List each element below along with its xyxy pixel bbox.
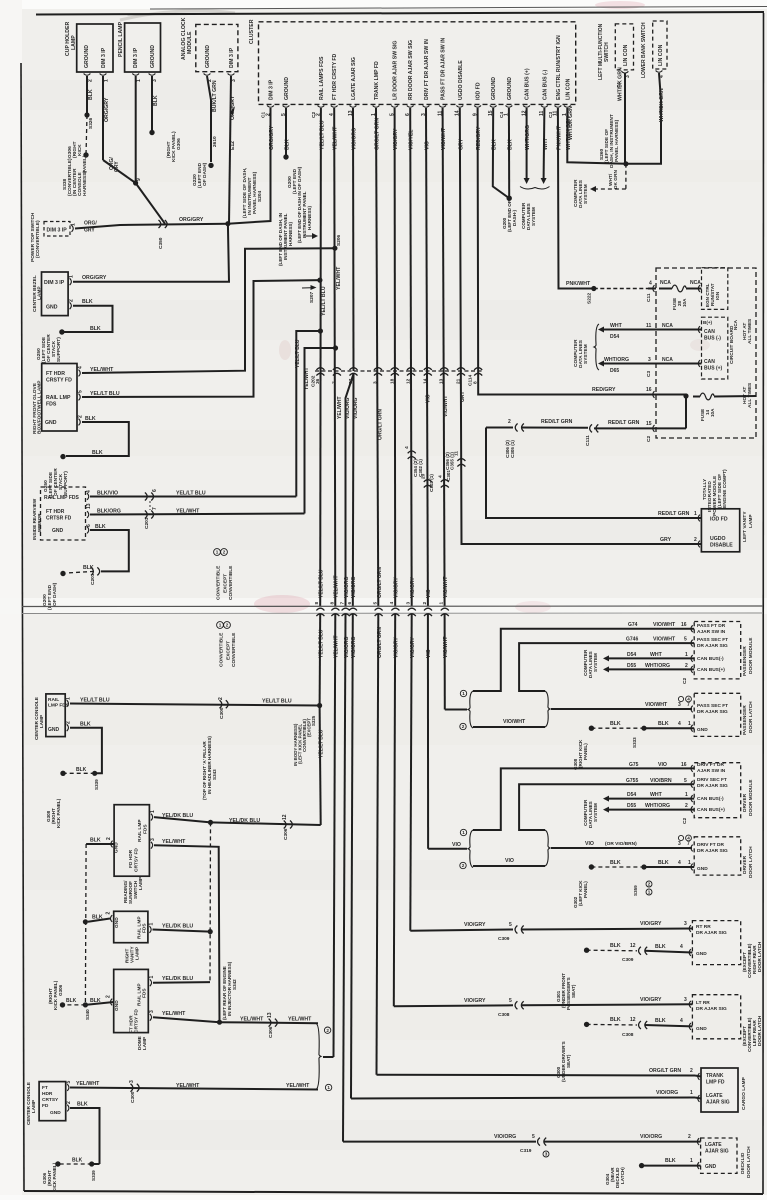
wire BLK/VIO - YEL/LT BLU mirror row, connector C201 pin 6 [90,496,296,498]
svg-text:14: 14 [422,378,428,384]
svg-text:1: 1 [216,550,219,555]
svg-text:RT RR: RT RR [696,924,711,930]
ground G306 (right kick panel) [86,115,87,155]
wire WHT/DK GRN from cluster LIN CON pin [567,108,626,164]
svg-text:MODULE: MODULE [187,31,193,54]
svg-text:3: 3 [406,602,412,605]
svg-text:ORG/LT GRN: ORG/LT GRN [377,567,383,598]
svg-text:13: 13 [86,503,92,509]
svg-text:BLK: BLK [655,1018,666,1024]
svg-text:ENGINE COMPT): ENGINE COMPT) [722,469,728,508]
svg-text:CRTSY FD: CRTSY FD [134,848,140,872]
wire BLK dome GND [85,1002,113,1005]
wire RED/GRY from cluster pin 9 to TIPM pin 16 [478,108,656,395]
splice S338 (in center console harness) [133,180,138,185]
svg-text:DIM 3 IP: DIM 3 IP [269,79,275,100]
svg-text:C3: C3 [548,112,554,118]
svg-text:S333: S333 [632,737,637,748]
wire BLK from pencil lamp pin 3 [151,76,153,130]
module: left rear door latch [692,995,740,1039]
svg-text:GROUND: GROUND [507,77,513,100]
svg-text:RR DOOR AJAR SW SIG: RR DOOR AJAR SW SIG [408,40,414,100]
svg-text:YEL/LT BLU: YEL/LT BLU [176,490,206,496]
svg-text:LAMP: LAMP [142,1037,147,1050]
svg-text:BLK: BLK [610,1017,621,1023]
svg-text:WHT/ORG: WHT/ORG [604,357,629,363]
svg-text:NCA: NCA [690,280,701,286]
svg-text:1: 1 [694,511,697,517]
svg-text:CAN BUS (-): CAN BUS (-) [542,69,548,100]
svg-text:5: 5 [532,1134,535,1140]
svg-text:PASS FT DR: PASS FT DR [697,623,726,629]
svg-text:2: 2 [88,79,94,82]
svg-text:VIO/WHT: VIO/WHT [653,637,676,643]
svg-text:BLK: BLK [658,860,669,866]
svg-text:DOOR LATCH: DOOR LATCH [757,1015,762,1046]
svg-text:D65: D65 [610,368,619,374]
svg-text:4: 4 [438,475,444,478]
wire YEL/WHT sunroof to S342 [154,845,220,1022]
junction YEL/WHT to mirror [333,345,338,350]
connector C202 (instrument panel) [315,370,483,372]
svg-text:YEL/WHT: YEL/WHT [162,1011,186,1017]
svg-text:AJAR SIG: AJAR SIG [705,1149,729,1155]
wire YEL/WHT row, connector C306 pin 13 [220,1022,319,1023]
wire YEL/WHT into brace [323,1056,334,1058]
svg-text:WHT/DK GRN: WHT/DK GRN [618,67,624,101]
lamp: center bezel lamp [42,272,69,316]
svg-text:C2: C2 [682,818,688,824]
svg-text:PANEL HARNESS): PANEL HARNESS) [614,119,620,162]
svg-text:PANEL): PANEL) [583,881,588,898]
svg-text:D54: D54 [627,652,636,658]
svg-text:1: 1 [690,1090,693,1096]
svg-text:YEL/WHT: YEL/WHT [176,508,200,514]
svg-text:2: 2 [66,1101,72,1104]
svg-text:VIO/ORG: VIO/ORG [353,397,359,419]
svg-text:G306: G306 [176,138,182,150]
svg-text:C306: C306 [283,828,289,840]
lamp: center console lamp (rail lamp feed) [46,694,65,737]
svg-text:3: 3 [373,381,379,384]
wire ORG/LT GRN to cargo lamp trunk lamp feed [377,614,379,1075]
splice S340 [83,1002,88,1007]
svg-text:6: 6 [347,602,353,605]
svg-text:YEL/WHT: YEL/WHT [304,368,310,391]
svg-text:OF DASH): OF DASH) [52,582,58,606]
svg-text:GND: GND [696,1026,707,1032]
svg-text:DR AJAR SIG: DR AJAR SIG [697,643,728,649]
svg-text:BLK: BLK [66,998,77,1004]
svg-text:FD HDR: FD HDR [128,849,134,868]
svg-text:RED/LT GRN: RED/LT GRN [541,419,573,425]
svg-text:C2: C2 [311,112,317,118]
svg-text:1: 1 [69,275,75,278]
svg-text:VIO/ORG: VIO/ORG [351,576,357,598]
svg-text:16: 16 [681,622,687,628]
ground G306 (right kick panel) lower [55,1161,60,1166]
svg-text:16: 16 [681,762,687,768]
ground G200 (left end of dash) for mirror [60,571,65,576]
wire VIO/WHT to passenger door [444,614,446,710]
svg-text:RAIL: RAIL [48,697,59,703]
svg-text:BLK: BLK [90,998,101,1004]
svg-text:BLK: BLK [80,722,91,728]
svg-text:LGATE: LGATE [706,1093,723,1099]
svg-text:LGATE AJAR SIG: LGATE AJAR SIG [351,57,357,100]
svg-text:FDS: FDS [143,824,149,834]
svg-text:4: 4 [687,697,690,702]
svg-text:BUS (-): BUS (-) [704,336,721,342]
svg-text:11: 11 [646,323,652,329]
svg-text:GROUND: GROUND [491,77,497,100]
svg-text:LIN CON: LIN CON [623,44,629,66]
svg-text:WHT: WHT [610,323,623,329]
svg-text:LGATE: LGATE [705,1142,722,1148]
svg-text:DECKLID: DECKLID [740,1152,746,1174]
svg-text:YEL/DK BLU: YEL/DK BLU [162,923,193,929]
svg-text:YEL/DK BLU: YEL/DK BLU [162,976,193,982]
svg-text:12: 12 [630,1017,636,1023]
fuse 14 10A [700,393,714,400]
svg-text:SYSTEM: SYSTEM [583,344,589,364]
svg-text:4: 4 [678,860,681,866]
svg-text:LAMP: LAMP [748,514,754,528]
brace: driver latch merge [545,830,550,866]
svg-text:2: 2 [106,837,112,840]
svg-text:CLUSTER: CLUSTER [249,19,255,44]
dashed wire to computer data lines system [625,164,627,189]
svg-text:C355 (1): C355 (1) [450,452,455,470]
svg-text:2: 2 [226,623,229,628]
svg-text:15: 15 [646,421,652,427]
splice S325 (left kick panel) [317,703,322,708]
svg-text:BLK: BLK [153,95,159,106]
svg-text:8: 8 [314,602,320,605]
svg-text:YEL/LT BLU: YEL/LT BLU [90,391,120,397]
svg-text:BUS (+): BUS (+) [704,366,723,372]
svg-text:6: 6 [86,524,92,527]
module: analog clock module [196,24,238,71]
svg-text:LT RR: LT RR [696,1000,710,1006]
wire VIO/ORG split left [346,374,354,607]
svg-text:(OR VIO/BRN): (OR VIO/BRN) [605,841,637,847]
svg-text:1: 1 [149,923,155,926]
svg-text:BLK: BLK [82,299,93,305]
svg-text:C308: C308 [622,1032,634,1038]
svg-text:10A: 10A [710,408,715,417]
svg-text:3: 3 [684,921,687,927]
svg-text:CAN BUS(+): CAN BUS(+) [697,667,725,673]
wire VIO/GRY to left rear door latch [394,614,395,1007]
svg-text:BLK: BLK [655,944,666,950]
svg-text:S325: S325 [311,715,316,726]
svg-text:KICK PANEL): KICK PANEL) [56,798,61,828]
svg-text:LATCH): LATCH) [620,1167,625,1184]
wire VIO/YEL - VIO/GRY from cluster pin 6 [410,108,412,607]
svg-text:LAMP: LAMP [37,286,43,300]
svg-text:IGN: IGN [715,291,720,300]
svg-text:RAIL LMP: RAIL LMP [46,395,71,401]
svg-text:WHT/DK GRN: WHT/DK GRN [568,106,574,140]
svg-text:3: 3 [129,1080,135,1083]
svg-text:BLK: BLK [92,914,103,920]
svg-text:RAIL LMP: RAIL LMP [137,819,143,842]
svg-text:VIO/GRY: VIO/GRY [640,921,662,927]
wire BLK/ORG - YEL/WHT mirror row, connector C201 pin 7 [90,514,305,515]
wire ORG/GRY to center bezel lamp [73,224,229,282]
svg-text:ORG/LT GRN: ORG/LT GRN [378,409,384,440]
svg-text:PNK/WHT: PNK/WHT [566,281,591,287]
svg-text:TRANK: TRANK [706,1073,724,1079]
svg-text:LAMP: LAMP [138,877,143,890]
svg-text:VIO/ORG: VIO/ORG [656,1090,678,1096]
svg-text:PANEL): PANEL) [583,743,588,760]
svg-text:1: 1 [688,721,691,727]
wire YEL/DK BLU row, connector C306 pin 12 [211,822,321,825]
svg-text:WHT/ORG: WHT/ORG [645,803,670,809]
wire ORG/GRY merge from cup holder [103,160,136,183]
wire ORG/GRY row with connector C350 [75,224,228,229]
svg-text:DOOR MODULE: DOOR MODULE [748,779,754,816]
svg-text:2610: 2610 [212,136,218,147]
svg-text:VIO/WHT: VIO/WHT [443,396,449,417]
svg-text:BLK: BLK [83,565,94,571]
brace: passenger latch merge [545,691,550,727]
wire BLK cluster pin 15 [493,108,509,198]
svg-text:3: 3 [678,841,681,847]
svg-text:VIO/ORG: VIO/ORG [494,1134,516,1140]
svg-text:CONVERTIBLE: CONVERTIBLE [228,565,234,600]
svg-text:BLK: BLK [610,943,621,949]
TIPM: EGN CTRL RUN/START IGN block [702,268,728,310]
svg-text:12: 12 [406,378,412,384]
splice S206 [332,246,337,251]
svg-text:VIO/GRY: VIO/GRY [394,577,400,598]
wire YEL/LT BLU console row, connector C300 pin 2 [70,704,320,706]
wire YEL/DK BLU sunroof row [154,817,211,822]
svg-text:YEL/LT BLU: YEL/LT BLU [319,729,325,758]
svg-text:DR AJAR SIG: DR AJAR SIG [697,709,728,715]
wire ORG/GRY from cluster pin 2 [228,108,271,224]
svg-text:YEL/LT BLU: YEL/LT BLU [80,697,110,703]
svg-text:2: 2 [78,415,84,418]
svg-text:DR AJAR SIG: DR AJAR SIG [697,848,728,854]
wire RED/LT GRN to left vanity lamp IOD FD [486,428,701,519]
ground G200 (left end of dash) [507,196,512,201]
svg-text:CONVERTIBLE: CONVERTIBLE [231,632,237,667]
svg-text:4: 4 [678,721,681,727]
page top edge line [150,7,767,10]
ground G308 (right kick panel) passenger latch [589,726,594,731]
svg-text:DOOR LATCH: DOOR LATCH [748,846,754,878]
svg-text:VIO/GRY: VIO/GRY [640,997,662,1003]
svg-text:C11: C11 [646,293,652,302]
wire YEL/LT BLU branch to glove box lamp pin 5 [82,280,320,397]
svg-text:12: 12 [630,943,636,949]
svg-text:GROUND: GROUND [150,45,156,68]
svg-text:GND: GND [114,842,120,853]
svg-text:S359: S359 [633,885,638,896]
svg-text:BLK: BLK [658,721,669,727]
wire YEL/WHT branch to mirror row [305,348,336,514]
svg-text:4: 4 [86,490,92,493]
svg-text:1: 1 [688,860,691,866]
svg-text:GRY: GRY [84,228,95,234]
svg-text:YEL/WHT: YEL/WHT [76,1081,100,1087]
svg-text:GND: GND [705,1164,717,1170]
svg-text:BLK/VIO: BLK/VIO [97,490,118,496]
svg-text:2: 2 [326,1028,329,1033]
svg-text:ALL TIMES: ALL TIMES [747,382,753,408]
svg-text:C2: C2 [682,678,688,684]
svg-text:GND: GND [50,1110,61,1116]
junction node ORG/GRY [225,221,230,226]
svg-text:VIO/WHT: VIO/WHT [645,702,668,708]
svg-text:BLK: BLK [610,860,621,866]
svg-text:CRSTY FD: CRSTY FD [46,378,72,384]
svg-text:C350: C350 [158,237,164,249]
svg-text:DIM 3 IP: DIM 3 IP [44,280,65,286]
svg-text:G306: G306 [58,984,63,996]
svg-text:SEAT): SEAT) [566,1054,571,1068]
svg-text:GND: GND [46,305,58,311]
page border bottom [24,1191,763,1194]
svg-text:ORG/: ORG/ [84,221,97,227]
ground G301 (under front passenger seat) [584,948,589,953]
svg-text:VIO: VIO [585,841,594,847]
wire WHT/ORG D55 CAN BUS(+) driver [603,807,609,813]
svg-text:2: 2 [462,863,465,868]
svg-text:12: 12 [282,814,288,820]
wire VIO G75 to driv ft dr ajar sw in pin 16 [473,768,694,830]
svg-text:HDR: HDR [42,1091,53,1097]
svg-text:GRY: GRY [660,537,672,543]
svg-text:ORG/GRY: ORG/GRY [82,275,107,281]
svg-text:8: 8 [329,602,335,605]
wire WHT/ORG CAN bus to computer data lines [526,108,528,178]
svg-text:S222: S222 [587,292,593,304]
svg-text:BLK: BLK [77,1102,88,1108]
svg-text:CRTSY FD: CRTSY FD [134,1009,140,1033]
svg-text:21: 21 [456,378,462,384]
splice S333 [641,726,646,731]
legend: 1 convertible / 2 except convertible [214,549,221,556]
svg-text:E12: E12 [230,141,236,150]
svg-text:BLK: BLK [90,326,101,332]
svg-text:2: 2 [685,803,688,809]
svg-text:4: 4 [680,944,683,950]
svg-text:AJAR SIG: AJAR SIG [706,1100,730,1106]
wire PNK/WHT from cluster C3 pin 11 [558,108,594,289]
svg-text:LAMP: LAMP [71,35,77,50]
svg-text:WHT/ORG: WHT/ORG [645,663,670,669]
wire YEL/DK BLU dome row [153,981,210,984]
svg-text:7: 7 [152,507,158,510]
wire VIO/ORG to decklid latch [343,614,346,1142]
svg-text:2: 2 [218,697,224,700]
svg-text:YEL/LT BLU: YEL/LT BLU [321,286,327,316]
svg-text:C201: C201 [90,573,96,585]
wire VIO/ORG split right [352,374,355,607]
fuse 28 10A [672,285,686,292]
wire YEL/DK BLU vanity row [153,930,211,932]
svg-text:4: 4 [78,366,84,369]
svg-text:CAN: CAN [704,329,715,335]
svg-text:YEL/DK BLU: YEL/DK BLU [162,813,193,819]
page border left [21,63,24,1191]
svg-text:1: 1 [71,223,77,226]
wire YEL/LT BLU branch to mirror row [296,331,320,497]
svg-text:D54: D54 [627,792,636,798]
svg-text:BLK: BLK [95,524,106,530]
svg-text:BLK: BLK [72,1158,83,1164]
wire YEL/WHT main vertical from cluster pin 4 [334,108,335,607]
ground G306 (right kick panel) for pencil lamp [149,130,154,135]
splice S343 (top of right A pillar) [208,820,213,825]
svg-text:SYSTEM: SYSTEM [531,207,536,226]
svg-text:SUPPORT): SUPPORT) [56,337,62,362]
ground G302 (left kick panel) [589,864,594,869]
svg-text:1: 1 [66,697,72,700]
svg-text:OF DASH): OF DASH) [202,162,208,186]
lamp: right vanity lamp [114,911,148,942]
svg-text:6: 6 [152,489,158,492]
svg-text:3: 3 [678,702,681,708]
svg-text:ALL TIMES: ALL TIMES [747,318,753,344]
svg-text:7: 7 [687,702,690,708]
svg-text:D55: D55 [627,663,636,669]
svg-text:2: 2 [66,721,72,724]
svg-text:2: 2 [694,537,697,543]
svg-text:1: 1 [462,830,465,835]
splice S326 [84,112,89,117]
svg-text:DR AJAR SIG: DR AJAR SIG [696,1006,727,1012]
svg-text:GROUND: GROUND [205,45,211,68]
svg-text:FDS: FDS [46,402,57,408]
svg-text:GND: GND [114,917,120,928]
svg-text:2: 2 [688,1134,691,1140]
svg-text:VIO/GRY: VIO/GRY [464,998,486,1004]
svg-text:G746: G746 [626,637,638,643]
svg-text:YEL/WHT: YEL/WHT [286,1083,310,1089]
switch: left multi-function switch (LIN CON) [615,24,633,70]
junction YEL/LT BLU to mirror [318,328,323,333]
wire VIO/GRY right rear row, connector C309 pin 5 [410,930,513,931]
svg-text:(CONVERTIBLE): (CONVERTIBLE) [35,220,41,258]
wire VIO/BRN G755 to driv sec ft dr ajar sig pin 5 [519,784,694,830]
brace: driver door options [468,830,473,868]
svg-text:LAMP: LAMP [39,715,44,728]
svg-text:YEL/LT BLU: YEL/LT BLU [295,339,301,368]
svg-text:CAN BUS(-): CAN BUS(-) [697,656,724,662]
svg-text:5: 5 [684,637,687,643]
module: passenger door latch [694,693,741,736]
svg-text:SYSTEM: SYSTEM [593,803,598,822]
svg-text:2: 2 [106,912,112,915]
svg-text:C319: C319 [520,1148,532,1154]
svg-text:C301: C301 [446,470,451,481]
svg-text:C302 (1): C302 (1) [418,459,423,477]
ground G308 (right kick panel) [60,771,65,776]
svg-text:TRANK LMP FD: TRANK LMP FD [374,61,380,100]
svg-text:LAMP: LAMP [135,947,140,960]
svg-text:D54: D54 [610,334,619,340]
svg-text:LMP FDS: LMP FDS [48,703,70,709]
svg-text:GND: GND [697,866,708,872]
svg-text:C309: C309 [498,936,510,942]
wire WHT/ORG D55 CAN BUS(+) passenger [603,666,609,672]
